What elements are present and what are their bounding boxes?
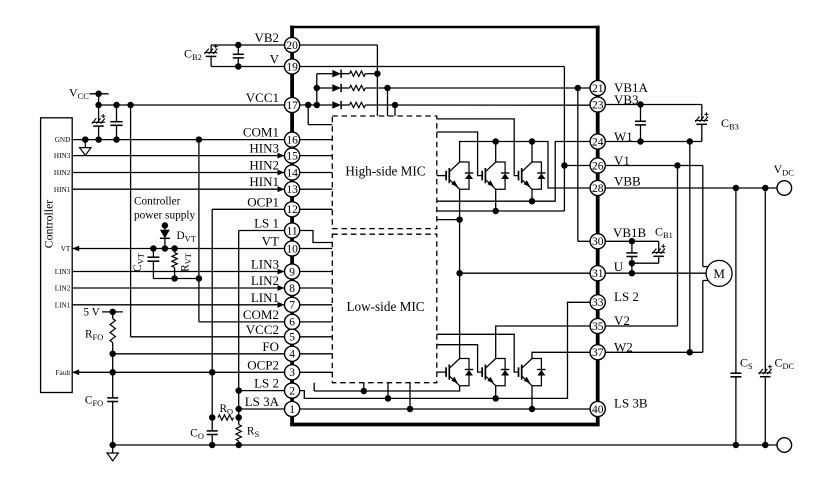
svg-text:12: 12 [286,204,298,216]
pin label LS 2 [254,376,279,391]
controller pin label HIN1 [54,186,71,194]
wire row1 cathode [365,73,377,75]
resistor bootstrap R2 (row2) [350,85,366,90]
svg-text:19: 19 [286,61,298,73]
wire LIN3 [72,269,284,275]
junction LS-row3/stub [407,406,414,413]
junction rail/RS [235,442,242,449]
pin 31 [590,266,605,281]
wire OCP1 link [212,209,284,372]
label Controller (rotated) [42,200,56,249]
junction VCC1/VCC2-feed [127,102,134,109]
capacitor CB3 ceramic [635,105,646,142]
svg-text:HIN1: HIN1 [54,186,71,194]
junction VCC stub [95,91,102,98]
wire high gate Q1 [437,175,446,177]
wire D3-R3 [341,104,349,106]
wire W rail (W1 to W2) [689,142,691,353]
wire LIN1 stub into low-side MIC [300,304,333,306]
transistor Q4 low-side U-phase IGBT [446,359,473,386]
pin label V1 [614,153,630,168]
junction rail/CDC [762,442,769,449]
pin 35 [590,318,605,333]
wire HIN2 [72,170,284,176]
svg-text:LIN2: LIN2 [55,285,71,293]
svg-text:HIN3: HIN3 [54,152,71,160]
wire OCP2 stub into low-side MIC [300,371,333,373]
svg-text:LS 3A: LS 3A [245,394,280,409]
wire VCC1 interior (pin17 to diodes) [300,104,333,106]
junction VT/CVT [150,245,157,252]
wire Q2 emitter [495,189,497,211]
junction W1/W-rail [687,138,694,145]
wire LS row1 stub b [363,383,365,391]
pin label LS 2 [614,289,639,304]
controller block [41,118,73,393]
wire HIN2 stub into high-side MIC [300,172,333,174]
pin 4 (FO) [285,346,300,361]
wire low gate Q6 [437,334,519,372]
svg-text:23: 23 [592,99,604,111]
wire LS row2 stub [387,383,389,399]
junction FO/RFO [109,351,116,358]
junction Fault/CFO [109,369,116,376]
wire VBB row (pin28 to VDC) [605,187,777,189]
pin 10 (VT) [285,241,300,256]
svg-text:W1: W1 [614,129,633,144]
wire V row (pin 19 left) [211,66,284,68]
wire high-side collector rail [460,142,590,189]
junction rail/CFO [109,442,116,449]
svg-text:4: 4 [289,349,295,361]
transistor Q6 low-side W-phase IGBT [519,359,546,386]
junction U/CB1 [629,270,636,277]
capacitor VCC ceramic [110,105,122,140]
pin 40 [590,401,605,416]
wire OCP vertical (OCP2 to RO) [211,372,213,417]
wire row2 MIC entry [387,88,389,116]
svg-text:VCC2: VCC2 [246,322,279,337]
label CB2 [184,47,202,63]
capacitor CB2 electrolytic [204,44,218,66]
pin 7 (LIN1) [285,297,300,312]
capacitor CB2 ceramic [233,45,244,67]
svg-text:VT: VT [262,234,279,249]
controller pin label HIN2 [54,169,71,177]
capacitor CB1 electrolytic [632,241,666,263]
resistor RS [236,425,241,446]
wire U row exterior (pin31 to motor) [605,272,706,274]
wire W row (Q3 emitter to W1) [437,142,590,202]
svg-text:26: 26 [592,160,604,172]
motor M [706,260,732,286]
svg-text:V2: V2 [614,313,630,328]
controller pin label Fault [56,369,71,377]
junction row2/MIC-entry [384,85,391,92]
svg-text:40: 40 [592,404,604,416]
wire LS2 row (pin 2) [239,390,285,392]
pin 13 (HIN1) [285,182,300,197]
node controller-power-supply terminal [162,222,169,229]
wire LIN2 stub into low-side MIC [300,287,333,289]
wire V row stub from MIC [437,210,496,212]
resistor RO [218,415,234,420]
pin label LS 1 [254,216,279,231]
pin 15 (HIN3) [285,148,300,163]
wire 5V stub [102,311,123,313]
wire Fault/OCP2 row [72,369,284,375]
svg-text:LS 3B: LS 3B [614,395,648,410]
transistor Q1 high-side U-phase IGBT [446,162,473,189]
pin label LS 3A [245,394,280,409]
junction LS2/LS-vert [235,387,242,394]
label VB1B [613,225,647,240]
pin label W1 [614,129,633,144]
label Controller power supply [134,196,196,222]
svg-text:33: 33 [592,297,604,309]
controller pin label LIN2 [55,285,71,293]
svg-text:VBB: VBB [614,173,641,188]
svg-text:FO: FO [262,339,279,354]
wire row2 cathode to pin 21 [365,87,590,89]
capacitor CVT [147,249,159,279]
label CS [740,356,753,372]
svg-text:V1: V1 [614,153,630,168]
wire D1-R1 [341,73,349,75]
wire VB2 row [211,44,284,46]
wire Q4 emitter to LS row1 [314,386,459,391]
junction VCC1/bootstrap-vert [314,102,321,109]
ground symbol (bottom rail) [107,446,118,461]
wire VCC2 stub into low-side MIC [300,336,333,338]
svg-text:High-side MIC: High-side MIC [345,164,425,179]
wire FO stub into low-side MIC [300,353,333,355]
svg-text:16: 16 [286,134,298,146]
wire bootstrap row1 anode [317,73,333,75]
diode bootstrap D3 (row3) [332,101,341,109]
svg-text:8: 8 [289,283,295,295]
ground symbol (controller GND) [80,141,91,156]
capacitor CB3 electrolytic [695,105,709,142]
wire VB1B row [605,240,658,242]
pin label VCC1 [246,90,279,105]
label U [614,259,624,274]
pin 33 [590,295,605,310]
svg-text:30: 30 [592,236,604,248]
label CFO [85,394,103,408]
svg-text:OCP1: OCP1 [247,194,279,209]
capacitor CFO [107,372,118,445]
pin 9 (LIN3) [285,264,300,279]
node 5V terminal label [83,307,100,319]
junction row2/VB1B-vert [575,85,582,92]
svg-text:24: 24 [592,136,604,148]
diode bootstrap D1 (row1) [332,70,341,78]
junction RO-right [235,414,242,421]
wire V vertical (V1 to V emitter row) [496,166,565,212]
junction OCP2/OCP-vert [209,369,216,376]
svg-text:LS 1: LS 1 [254,216,279,231]
pin label HIN2 [249,158,279,173]
svg-text:LS 2: LS 2 [614,289,639,304]
transistor Q3 high-side W-phase IGBT [519,162,546,189]
junction VCC1/ceramic [113,102,120,109]
svg-text:10: 10 [286,243,298,255]
label RFO [85,329,103,343]
svg-text:5: 5 [289,332,295,344]
pin 2 (LS 2) [285,383,300,398]
wire motor V feed [703,166,708,267]
wire V interior (pin19 to V1) [300,67,565,166]
wire GND/COM1 rail [72,139,284,141]
high-side MIC block U1 (dashed box) [332,116,437,229]
controller pin label HIN3 [54,152,71,160]
wire VCC1 rail (terminal to pin 17) [99,104,285,106]
junction LS-row1/stub-b [361,388,368,395]
svg-text:power supply: power supply [134,210,196,222]
pin label HIN1 [249,174,279,189]
label RVT (rotated) [180,253,194,272]
wire U row stub from MIC [437,219,460,221]
pin 5 (VCC2) [285,329,300,344]
pin label OCP2 [247,357,279,372]
wire V rail (V1 to V2) [677,166,679,327]
junction V1/V-vert [561,162,568,169]
pin label OCP1 [247,194,279,209]
capacitor VCC electrolytic [92,105,106,140]
controller pin label VT [61,245,71,253]
junction COM1/COM2-feed [196,136,203,143]
resistor bootstrap R1 (row1) [350,71,366,76]
capacitor CO [207,418,218,446]
svg-text:14: 14 [286,167,298,179]
svg-text:Fault: Fault [56,369,71,377]
wire bottom rail [113,444,777,446]
junction COM1/elco [95,136,102,143]
pin 28 [590,180,605,195]
label DVT [177,230,196,244]
wire VCC2 feed vertical [131,105,285,337]
svg-text:VB2: VB2 [254,30,279,45]
label Low-side MIC [346,299,424,314]
svg-text:U: U [614,259,624,274]
svg-text:COM1: COM1 [243,125,279,140]
pin label LIN3 [251,257,279,272]
wire LS row3 stub [409,383,411,409]
junction rail/Q2 collector [492,138,499,145]
junction VCC1/VCC-vert [95,102,102,109]
pin 3 (OCP2) [285,365,300,380]
svg-text:35: 35 [592,321,604,333]
svg-text:7: 7 [289,300,295,312]
junction VBB/CDC [762,185,769,192]
wire LIN2 [72,285,284,291]
pin 16 (COM1) [285,132,300,147]
svg-text:VB1B: VB1B [613,225,647,240]
wire COM2 feed vertical [199,140,285,322]
junction 5V stub [109,309,116,316]
junction LS-row2/Q5 [492,395,499,402]
junction LS3A/LS-vert [235,406,242,413]
node VDC terminal [777,181,792,196]
wire LS1 link [239,231,285,391]
wire D2-R2 [341,87,349,89]
wire row3 cathode to pin 23 [365,104,590,106]
controller pin label GND [55,136,71,144]
pin 20 (VB2) [285,37,300,52]
junction U-row/Q1 [456,216,463,223]
wire high gate Q3 [437,119,519,176]
label RS [247,426,260,440]
svg-text:V: V [270,52,280,67]
label VDC [774,162,795,178]
pin 14 (HIN2) [285,165,300,180]
wire V2 row exterior [605,325,677,327]
wire V1 row exterior [605,165,703,167]
label CVT (rotated) [132,253,146,272]
wire LS3A row (pin 1) [239,408,285,410]
pin label VBB [614,173,641,188]
pin 30 [590,234,605,249]
wire HIN3 stub into high-side MIC [300,155,333,157]
resistor RFO [110,312,115,354]
wire low gate Q4 [437,371,446,373]
node DC-return terminal [777,438,792,453]
junction V-row/Q2 [492,208,499,215]
resistor RVT [172,249,177,279]
wire W1 row [605,141,702,143]
wire LS vertical (LS3A to RS) [238,409,240,425]
svg-text:VT: VT [61,245,71,253]
junction W2/W-rail [687,349,694,356]
wire high gate Q2 [437,132,482,176]
junction RO-left [209,414,216,421]
junction VT/DVT [162,245,169,252]
svg-text:Low-side MIC: Low-side MIC [346,299,424,314]
wire low gate Q5 [437,345,482,372]
svg-text:M: M [713,266,725,281]
pin label W2 [614,339,633,354]
junction COM-vert/tie [196,275,203,282]
junction rail/Q3 collector [529,138,536,145]
capacitor CB1 ceramic [626,241,637,273]
svg-text:28: 28 [592,183,604,195]
pin 19 (V) [285,59,300,74]
junction RVT-bottom [171,275,178,282]
svg-text:6: 6 [289,317,295,329]
wire Q5 emitter [495,386,497,399]
junction W-row/Q3 [529,198,536,205]
label CB3 [721,116,739,132]
pin label VCC2 [246,322,279,337]
junction VB3/ceramic [637,101,644,108]
junction V1/V-rail [674,162,681,169]
junction VT/RVT [171,245,178,252]
wire W2 row exterior [605,351,703,353]
pin label V2 [614,313,630,328]
pin 17 (VCC1) [285,97,300,112]
pin 37 [590,345,605,360]
label CO [190,428,204,442]
svg-text:LIN3: LIN3 [251,257,279,272]
wire OCP1 stub into high-side MIC [300,208,333,210]
wire COM2 stub into low-side MIC [300,321,333,323]
wire Q3 collector [531,142,533,163]
wire Q3 emitter [531,189,533,201]
pin 12 (OCP1) [285,202,300,217]
wire V1 line interior (to pin 26) [564,165,590,167]
pin 11 (LS 1) [285,223,300,238]
wire VB2 interior (pin20 to MIC) [300,45,378,116]
junction U-line/Q1 [456,270,463,277]
svg-text:Controller: Controller [42,200,56,249]
pin label HIN3 [249,141,279,156]
pin label COM2 [243,307,279,322]
pin 6 (COM2) [285,314,300,329]
svg-text:37: 37 [592,347,604,359]
junction row3/MIC-entry [392,102,399,109]
junction COM1/ceramic [113,136,120,143]
wire VCC1 MIC entry [308,105,332,125]
svg-text:31: 31 [592,268,604,280]
resistor bootstrap R3 (row3) [350,102,366,107]
svg-text:20: 20 [286,40,298,52]
svg-text:15: 15 [286,150,298,162]
wire HIN3 [72,153,284,159]
transistor Q2 high-side V-phase IGBT [482,162,509,189]
wire motor W feed [703,281,708,353]
svg-text:17: 17 [286,100,298,112]
pin 24 [590,134,605,149]
controller pin label LIN3 [55,268,71,276]
IPM module outline [290,26,599,426]
junction W1/ceramic [637,138,644,145]
wire VB1A-VB1B vertical [578,88,590,241]
svg-text:OCP2: OCP2 [247,357,279,372]
wire VB3 row [605,104,702,106]
junction LS-row2/stub [385,395,392,402]
pin label COM1 [243,125,279,140]
wire Q6 emitter [531,386,533,409]
svg-text:11: 11 [287,225,298,237]
label CDC [775,356,795,372]
svg-text:Controller: Controller [134,196,181,208]
wire LS1 stub into low-side MIC [300,231,333,243]
svg-text:21: 21 [592,83,604,95]
svg-text:HIN2: HIN2 [54,169,71,177]
wire CVT/RVT bottom tie [153,278,199,280]
svg-text:LIN3: LIN3 [55,268,71,276]
pin label VT [262,234,279,249]
junction rail/CO [209,442,216,449]
junction V/ceramic [235,63,242,70]
wire LS row1 stub a [313,383,315,391]
svg-text:HIN2: HIN2 [249,158,279,173]
pin 8 (LIN2) [285,280,300,295]
controller pin label LIN1 [55,301,71,309]
pin label VB2 [254,30,279,45]
pin label LIN2 [251,273,279,288]
pin label VB3 [614,92,639,107]
svg-text:LIN2: LIN2 [251,273,279,288]
wire HIN1 stub into high-side MIC [300,188,333,190]
wire row3 MIC entry [394,105,396,116]
node VCC terminal label [69,86,89,102]
wire U line interior (to pin 31) [460,272,590,274]
wire FO (RFO to pin 4) [113,353,285,355]
svg-text:GND: GND [55,136,71,144]
wire LS row3 (pin1 to pin40) [300,408,590,410]
